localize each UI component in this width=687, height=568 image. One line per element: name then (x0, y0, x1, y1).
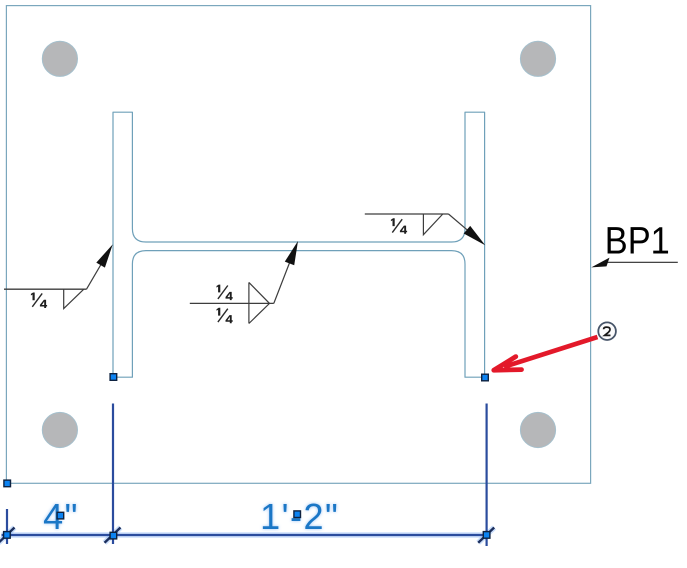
weld symbol right: fillet triangle (423, 214, 442, 235)
keynote circle 2 (598, 322, 616, 340)
weld symbol middle: upper 1/4 label (217, 285, 233, 301)
tick middle (105, 528, 121, 543)
BP1 leader line (604, 261, 678, 263)
BP1 leader arrowhead (591, 258, 609, 268)
weld symbol middle: arrowhead (285, 241, 298, 265)
grip dim right (483, 532, 490, 539)
grip dim text 4" (57, 512, 64, 519)
weld symbol middle: leader line (274, 259, 291, 304)
weld symbol middle: double fillet triangles (249, 282, 270, 323)
bolt hole top-right (520, 41, 555, 76)
bolt hole top-left (42, 41, 77, 76)
tick left (0, 528, 15, 543)
grip right flange end (482, 374, 489, 381)
dimension glow layer (0, 528, 494, 543)
weld symbol left: fillet triangle (64, 289, 84, 308)
weld symbol middle: reference line (190, 302, 274, 304)
red revision arrowhead barbs (494, 357, 522, 371)
weld symbol right: arrowhead (464, 226, 486, 245)
bolt hole bottom-right (520, 412, 555, 447)
grip dim text 1'-2" (294, 511, 301, 518)
weld symbol left: leader line (87, 254, 108, 289)
beam W-section profile (113, 112, 485, 377)
svg-text:BP1: BP1 (605, 219, 670, 262)
grip plate corner (4, 480, 11, 487)
weld symbol left: arrowhead (96, 244, 112, 267)
red revision arrow shaft (504, 337, 598, 367)
weld symbol right: reference line (365, 213, 449, 215)
weld symbol right: leader line (449, 214, 471, 232)
bolt hole bottom-left (42, 412, 77, 447)
weld symbol left: reference line (4, 288, 87, 290)
weld symbol left: 1/4 label (31, 293, 47, 309)
dimension extension line right (486, 404, 488, 547)
tick right (478, 528, 494, 543)
grip left flange end (110, 374, 117, 381)
grip dim left (4, 532, 11, 539)
grip dim middle (110, 532, 117, 539)
plate outline (6, 6, 590, 484)
dimension line (2, 534, 491, 536)
weld symbol right: 1/4 label (391, 218, 407, 234)
weld symbol middle: lower 1/4 label (217, 308, 233, 324)
dimension extension line left (6, 509, 8, 544)
dimension extension line middle (112, 404, 114, 545)
